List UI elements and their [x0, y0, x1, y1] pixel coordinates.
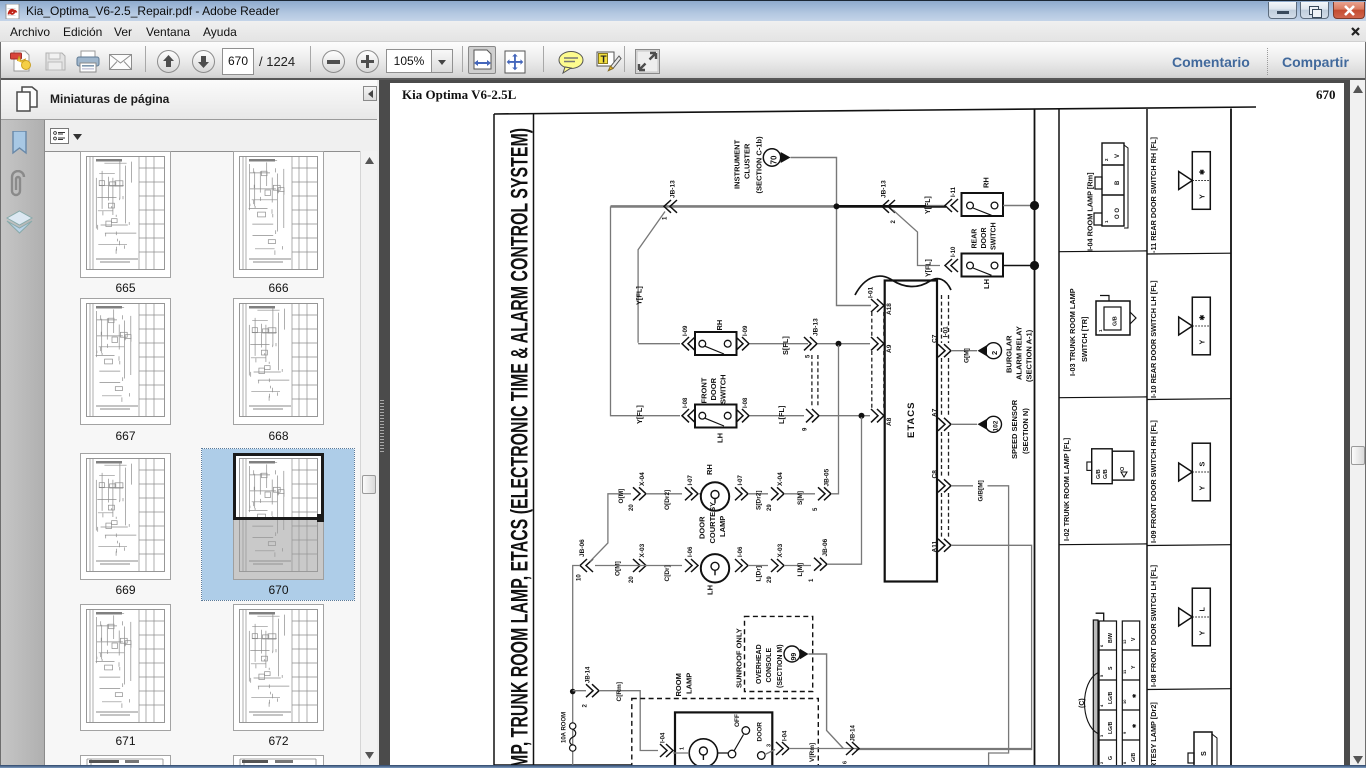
svg-text:S: S: [1198, 462, 1207, 467]
lamp: DOOR COURTESY LAMP LH: [701, 554, 729, 582]
node S junction: [836, 341, 842, 347]
node fuse junction: [570, 689, 576, 695]
svg-text:1: 1: [1098, 329, 1103, 332]
svg-text:Y: Y: [1198, 194, 1207, 199]
wire from instrument cluster to A18: [791, 158, 872, 306]
connector X-03 chevron: [633, 559, 646, 572]
svg-text:(SECTION M): (SECTION M): [777, 644, 784, 688]
connector I-07 chevron right: [735, 487, 748, 500]
svg-text:I-09: I-09: [683, 325, 689, 336]
pin A7 chevron: [938, 418, 951, 431]
svg-text:G/B[M]: G/B[M]: [978, 480, 985, 501]
svg-text:I-03 TRUNK ROOM LAMP: I-03 TRUNK ROOM LAMP: [1068, 288, 1077, 376]
svg-text:ETACS: ETACS: [906, 402, 917, 439]
svg-text:I-02 TRUNK ROOM LAMP [FL]: I-02 TRUNK ROOM LAMP [FL]: [1062, 437, 1071, 541]
wire O[Dr2]: [646, 493, 682, 495]
svg-text:6: 6: [843, 761, 849, 764]
svg-text:V[Rm]: V[Rm]: [809, 743, 816, 762]
connector I-08: [1179, 588, 1211, 646]
wire: Y[FL] to LH front switch: [611, 206, 681, 415]
svg-text:O: O: [1120, 466, 1126, 471]
svg-text:Y[FL]: Y[FL]: [926, 259, 933, 277]
svg-text:I-06: I-06: [738, 546, 744, 557]
svg-text:O O: O O: [1115, 208, 1121, 219]
svg-text:1: 1: [680, 747, 686, 750]
lamp: room lamp bulb: [689, 739, 717, 767]
connector I-09 chevron left: [682, 337, 695, 350]
connector I-02 drawing: [1087, 449, 1134, 484]
svg-text:I-10 REAR DOOR SWITCH LH [FL]: I-10 REAR DOOR SWITCH LH [FL]: [1149, 280, 1158, 398]
svg-text:Y[FL]: Y[FL]: [635, 286, 644, 305]
title box left line: [493, 114, 495, 768]
wire diagonal to rear LH: [893, 210, 940, 266]
title box right line: [533, 114, 535, 768]
svg-text:ROOM: ROOM: [674, 673, 683, 696]
svg-text:(SECTION C-1b): (SECTION C-1b): [755, 136, 764, 194]
comment bubble: [558, 51, 585, 74]
connector I-11: [1179, 152, 1211, 210]
envelope: [109, 54, 132, 70]
svg-text:1: 1: [809, 578, 815, 582]
svg-text:C7: C7: [932, 334, 939, 343]
svg-text:G/B: G/B: [1103, 469, 1109, 479]
fullscreen: [635, 49, 660, 74]
svg-text:RH: RH: [715, 320, 724, 331]
svg-text:B/W: B/W: [1108, 633, 1114, 643]
svg-text:I-01: I-01: [868, 286, 875, 298]
node bus dot RH: [1030, 201, 1039, 210]
wire G[M]: [951, 350, 977, 352]
svg-text:I-04: I-04: [661, 732, 667, 743]
svg-text:REAR: REAR: [972, 229, 979, 249]
svg-text:12: 12: [1122, 639, 1127, 644]
svg-text:G/B: G/B: [1113, 316, 1119, 326]
wire C[Rm]: [573, 691, 658, 751]
connector I-04 drawing: [1094, 143, 1128, 228]
wire L[M]: [784, 565, 811, 567]
room lamp inner box: [675, 712, 772, 768]
svg-text:1: 1: [1104, 220, 1109, 223]
sheet top border: [494, 107, 1256, 114]
wire to A9 with junction: [818, 343, 870, 345]
svg-text:CONSOLE: CONSOLE: [766, 648, 773, 683]
svg-text:2: 2: [891, 220, 897, 224]
svg-text:SWITCH [TR]: SWITCH [TR]: [1080, 316, 1089, 362]
svg-text:SUNROOF ONLY: SUNROOF ONLY: [735, 628, 744, 688]
svg-text:G/B: G/B: [1096, 469, 1102, 479]
wire to A8: [820, 415, 870, 417]
table col separator: [1146, 109, 1148, 768]
svg-text:INSTRUMENT: INSTRUMENT: [733, 139, 742, 189]
wire diagonal up to RH lamp row: [590, 494, 631, 562]
svg-text:B: B: [1115, 180, 1121, 185]
pin A8 chevron: [871, 409, 884, 422]
wire to I-09: [638, 343, 680, 345]
svg-text:X-04: X-04: [777, 472, 784, 486]
svg-text:29: 29: [767, 576, 773, 583]
svg-text:FRONT: FRONT: [700, 377, 709, 403]
table col1 left border: [1058, 110, 1060, 768]
svg-text:3: 3: [1099, 734, 1104, 737]
svg-text:L: L: [1198, 607, 1207, 612]
svg-text:✱: ✱: [1132, 723, 1138, 728]
wire: main bus horizontal: [611, 205, 837, 208]
svg-text:2: 2: [990, 351, 999, 355]
node L junction: [859, 413, 865, 419]
wire S[M]: [784, 493, 815, 495]
lamp: DOOR COURTESY LAMP RH: [698, 493, 701, 495]
wire S[Dr2]: [748, 493, 768, 495]
svg-text:L[Dr]: L[Dr]: [756, 566, 763, 582]
svg-text:I-06: I-06: [688, 546, 694, 557]
svg-text:I-08 FRONT DOOR SWITCH LH [FL]: I-08 FRONT DOOR SWITCH LH [FL]: [1149, 564, 1158, 687]
switch: FRONT DOOR SWITCH LH: [695, 405, 737, 428]
connector X-04 chevron: [633, 487, 646, 500]
wire from overhead console to JB-14: [809, 654, 844, 749]
connector X-03 chevron right: [771, 559, 784, 572]
save disabled: [45, 51, 66, 71]
connector JB-06 pin1 chevron: [814, 558, 827, 571]
wire: diagonal to Y[FL]: [638, 212, 665, 343]
svg-text:I-01: I-01: [943, 326, 950, 338]
svg-text:LAMP: LAMP: [685, 673, 694, 694]
svg-text:I-07: I-07: [738, 474, 744, 485]
pin C8 chevron: [938, 479, 951, 492]
svg-text:20: 20: [629, 504, 635, 511]
wire L[FL]: [750, 415, 804, 417]
svg-text:SPEED SENSOR: SPEED SENSOR: [1010, 399, 1019, 459]
table right border: [1230, 109, 1232, 768]
svg-text:X-04: X-04: [639, 472, 646, 486]
svg-text:I-10: I-10: [951, 246, 957, 257]
svg-text:10A ROOM: 10A ROOM: [562, 712, 568, 743]
wire up to L junction: [827, 417, 862, 564]
svg-text:2: 2: [1104, 158, 1109, 161]
svg-text:LG/B: LG/B: [1108, 721, 1114, 734]
svg-text:99: 99: [791, 653, 798, 661]
svg-text:10: 10: [577, 574, 583, 581]
svg-text:Y: Y: [1198, 340, 1207, 345]
svg-text:20: 20: [629, 576, 635, 583]
svg-text:DOOR: DOOR: [757, 722, 764, 742]
connector I-07 chevron: [685, 487, 698, 500]
svg-text:I-04 ROOM LAMP [Rm]: I-04 ROOM LAMP [Rm]: [1086, 172, 1095, 251]
svg-text:DOOR: DOOR: [709, 377, 718, 400]
wire G/B[M]: [951, 485, 973, 487]
connector (C) big grid: [1093, 613, 1139, 768]
bus vertical line: [1034, 110, 1036, 768]
pin A18 chevron: [871, 299, 884, 312]
svg-text:C8: C8: [932, 470, 939, 479]
connector JB-13 pin1 chevron: [664, 200, 677, 213]
connector I-03 drawing: [1096, 296, 1136, 336]
svg-text:Y: Y: [1198, 631, 1207, 636]
svg-text:I-08: I-08: [743, 397, 749, 408]
svg-text:(SECTION N): (SECTION N): [1021, 408, 1030, 454]
svg-text:6: 6: [1099, 644, 1104, 647]
svg-text:102: 102: [993, 420, 1000, 431]
bottom partial frame line: [494, 764, 632, 766]
svg-text:I-11 REAR DOOR SWITCH RH [FL]: I-11 REAR DOOR SWITCH RH [FL]: [1149, 136, 1158, 255]
node 99 circle: [784, 646, 800, 662]
wire C[Dr]: [595, 565, 682, 567]
svg-text:LH: LH: [982, 279, 991, 289]
svg-text:O[M]: O[M]: [618, 489, 625, 504]
svg-text:3: 3: [767, 744, 773, 747]
svg-text:ALARM RELAY: ALARM RELAY: [1015, 326, 1024, 380]
splitter dots: [380, 399, 384, 452]
svg-text:V: V: [1131, 637, 1137, 641]
svg-text:5: 5: [806, 354, 812, 358]
svg-text:Y: Y: [1198, 486, 1207, 491]
svg-text:I-04: I-04: [783, 730, 789, 741]
svg-text:4: 4: [1099, 704, 1104, 707]
svg-text:Y: Y: [1131, 665, 1137, 669]
node bus junction: [834, 203, 840, 209]
svg-text:LH: LH: [706, 585, 715, 595]
connector JB-14 pin6 chevron: [846, 742, 859, 755]
node bus dot LH: [1030, 261, 1039, 270]
svg-text:I-11: I-11: [951, 186, 957, 197]
svg-text:C[Dr]: C[Dr]: [664, 565, 671, 581]
open icon: [10, 50, 34, 72]
switch: FRONT DOOR SWITCH RH: [695, 332, 737, 355]
fuse 10A ROOM: [570, 723, 576, 729]
connector JB-13 pin2 chevron: [882, 200, 895, 213]
switch: REAR DOOR SWITCH LH: [962, 254, 1004, 277]
svg-text:JB-14: JB-14: [586, 666, 592, 683]
svg-text:2: 2: [1099, 761, 1104, 764]
svg-text:JB-14: JB-14: [851, 724, 857, 741]
svg-text:X-03: X-03: [777, 543, 784, 557]
svg-text:G: G: [1108, 756, 1114, 760]
fit width (pressed): [468, 46, 496, 74]
svg-text:5: 5: [813, 507, 819, 511]
connector I-08 chevron left: [682, 409, 695, 422]
wire to bus: [1003, 265, 1035, 267]
ETACS box: [885, 281, 937, 582]
harness arc: [855, 276, 951, 295]
wire to bus: [1003, 205, 1035, 207]
connector JB-05 chevron: [818, 487, 831, 500]
wire A11 return: [856, 545, 1032, 749]
svg-text:MP, TRUNK ROOM LAMP, ETACS (EL: MP, TRUNK ROOM LAMP, ETACS (ELECTRONIC T…: [507, 128, 534, 768]
svg-text:70: 70: [770, 155, 779, 164]
svg-text:DOOR: DOOR: [981, 228, 988, 249]
connector I-04 chevron left: [660, 744, 673, 757]
svg-text:9: 9: [803, 427, 809, 431]
connector I-09: [1179, 443, 1211, 501]
svg-text:S[Dr2]: S[Dr2]: [756, 490, 763, 510]
svg-text:V: V: [1115, 154, 1121, 158]
node speed sensor arrow: [978, 419, 988, 430]
overhead console dashed box: [745, 616, 813, 691]
print: [76, 50, 100, 73]
connector JB-14 pin2 chevron: [586, 684, 599, 697]
pin A9 chevron: [871, 337, 884, 350]
sign icon: [596, 50, 622, 74]
connector I-10: [1179, 297, 1211, 355]
svg-text:C[Rm]: C[Rm]: [616, 682, 623, 702]
svg-text:COURTESY: COURTESY: [708, 502, 717, 544]
wire dashed right channel: [942, 295, 949, 537]
connector I-08 chevron right: [736, 409, 749, 422]
svg-text:L[FL]: L[FL]: [777, 405, 786, 424]
svg-text:G[M]: G[M]: [964, 348, 971, 363]
wire up to S junction: [831, 345, 839, 494]
svg-text:5: 5: [1099, 674, 1104, 677]
pin A11 chevron: [938, 539, 951, 552]
svg-text:BURGLAR: BURGLAR: [1005, 335, 1014, 373]
svg-text:A18: A18: [886, 303, 893, 315]
svg-text:A11: A11: [932, 541, 939, 553]
svg-text:I-09: I-09: [743, 325, 749, 336]
svg-text:JB-06: JB-06: [822, 538, 829, 556]
svg-text:SWITCH: SWITCH: [719, 374, 728, 404]
wire S[FL]: [750, 343, 808, 345]
svg-text:LAMP: LAMP: [718, 516, 727, 537]
switch: room lamp OFF/DOOR: [728, 750, 736, 758]
svg-text:CLUSTER: CLUSTER: [743, 143, 752, 179]
connector row5 partial: [1188, 732, 1217, 768]
wire V[Rm]: [765, 749, 1032, 755]
svg-text:Y[FL]: Y[FL]: [635, 405, 644, 424]
svg-text:O[M]: O[M]: [615, 561, 622, 576]
connector I-09 chevron right: [736, 337, 749, 350]
connector I-06 chevron right: [735, 559, 748, 572]
svg-text:I-07: I-07: [688, 474, 694, 485]
svg-text:G/B: G/B: [1131, 753, 1137, 762]
svg-text:DOOR: DOOR: [698, 516, 707, 539]
svg-text:T: T: [601, 55, 607, 66]
svg-text:10: 10: [1122, 699, 1127, 704]
svg-text:I-09 FRONT DOOR SWITCH RH [FL]: I-09 FRONT DOOR SWITCH RH [FL]: [1149, 420, 1158, 543]
svg-text:✱: ✱: [1199, 315, 1207, 321]
svg-text:2: 2: [583, 704, 589, 708]
svg-text:OFF: OFF: [734, 714, 741, 727]
wire to I-11: [926, 205, 946, 207]
connector I-11 chevron: [945, 199, 958, 212]
svg-text:RH: RH: [982, 177, 991, 188]
svg-text:(SECTION A-1): (SECTION A-1): [1025, 329, 1034, 382]
connector JB-13 pin9 chevron: [806, 409, 819, 422]
svg-text:A8: A8: [886, 417, 893, 426]
connector X-04 chevron right: [771, 487, 784, 500]
room lamp dashed box: [632, 699, 819, 768]
wire dashed left channel: [872, 312, 884, 409]
svg-text:RTESY LAMP [Dr2]: RTESY LAMP [Dr2]: [1149, 702, 1158, 768]
connector JB-13 pin5 chevron: [804, 337, 817, 350]
svg-text:SWITCH: SWITCH: [991, 222, 998, 250]
svg-text:JB-13: JB-13: [813, 318, 820, 336]
node 70 circle: [763, 149, 780, 166]
svg-text:LG/B: LG/B: [1108, 691, 1114, 704]
col1 row separators: [1059, 250, 1147, 253]
svg-text:S[FL]: S[FL]: [781, 336, 790, 355]
fit page: [503, 50, 527, 74]
wire L[Dr]: [748, 565, 768, 567]
svg-text:✱: ✱: [1132, 693, 1138, 698]
switch: REAR DOOR SWITCH RH: [962, 193, 1004, 216]
svg-text:RH: RH: [705, 464, 714, 475]
connector JB-06 pin10 chevron: [580, 559, 593, 572]
col2 row separators: [1147, 252, 1231, 255]
connector I-10 chevron: [945, 259, 958, 272]
pin C7 chevron: [938, 344, 951, 357]
wire dashed JB-13 channel: [812, 355, 818, 407]
svg-text:S: S: [1108, 666, 1114, 670]
svg-text:LH: LH: [716, 433, 725, 443]
svg-text:S[M]: S[M]: [797, 491, 804, 505]
svg-text:1: 1: [663, 216, 669, 220]
svg-text:L[M]: L[M]: [797, 563, 804, 577]
node burglar alarm relay arrow: [978, 345, 988, 356]
svg-text:O[Dr2]: O[Dr2]: [664, 490, 671, 510]
connector I-04 chevron right: [776, 742, 789, 755]
svg-text:29: 29: [767, 504, 773, 511]
svg-text:JB-06: JB-06: [579, 539, 586, 557]
wire from JB-06 to LH row: [573, 566, 580, 768]
svg-text:JB-13: JB-13: [881, 180, 888, 198]
svg-text:A7: A7: [932, 408, 939, 417]
svg-text:X-03: X-03: [639, 543, 646, 557]
svg-text:JB-13: JB-13: [670, 180, 677, 198]
svg-text:A9: A9: [886, 344, 893, 353]
wire to speed sensor: [951, 423, 977, 425]
svg-text:I-08: I-08: [683, 397, 689, 408]
connector I-06 chevron: [685, 559, 698, 572]
svg-text:JB-05: JB-05: [824, 468, 831, 486]
svg-text:✱: ✱: [1199, 169, 1207, 175]
svg-text:OVERHEAD: OVERHEAD: [756, 644, 763, 684]
svg-text:S: S: [1199, 751, 1208, 756]
